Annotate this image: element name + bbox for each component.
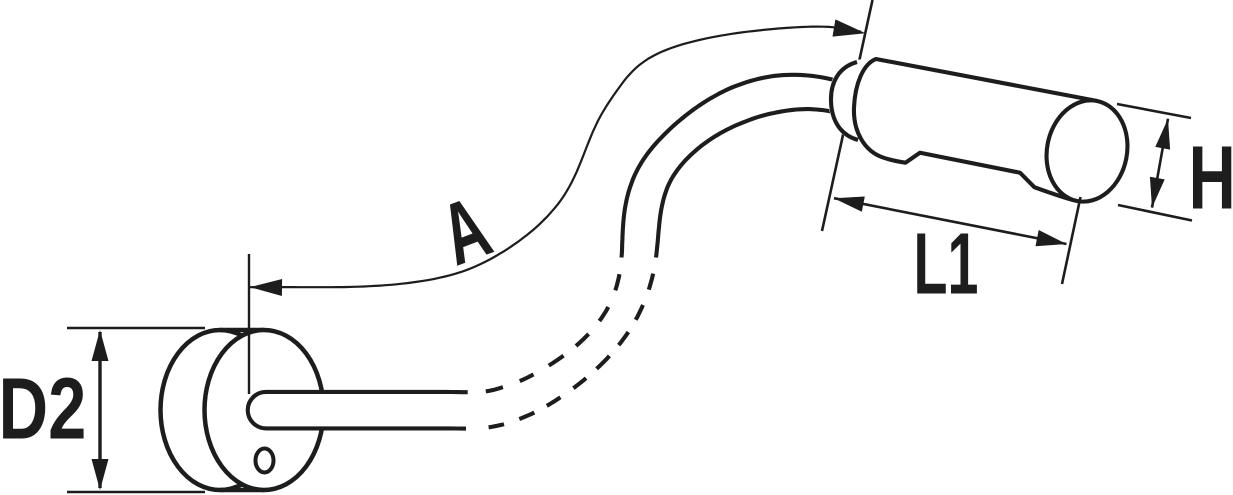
D2 dimension line xyxy=(98,332,101,488)
extension line (connector, for A and L1) xyxy=(822,0,873,231)
svg-text:L1: L1 xyxy=(914,216,979,312)
tube top wall dashed xyxy=(486,274,620,391)
D2 bottom extension line xyxy=(67,491,205,494)
svg-text:H: H xyxy=(1189,127,1233,228)
svg-text:D2: D2 xyxy=(0,360,86,458)
L1 right extension line xyxy=(1062,197,1081,284)
tube white interior xyxy=(266,75,847,429)
disc top tangent xyxy=(220,328,264,333)
dimension arc A xyxy=(250,27,861,288)
H top extension line xyxy=(1117,104,1191,118)
tube left end cap xyxy=(248,392,266,429)
tube bottom wall solid (to connector) xyxy=(656,109,842,257)
tube top wall solid (from disc) xyxy=(266,390,468,394)
arrowhead L1 left xyxy=(834,197,865,212)
L1 dimension line xyxy=(834,198,1067,244)
arrowhead D2 down xyxy=(92,459,109,490)
collar white mask xyxy=(828,59,874,142)
arrowhead H down xyxy=(1150,177,1165,208)
D2 top extension line xyxy=(67,327,205,330)
arrowhead A right xyxy=(833,19,866,36)
connector end ellipse xyxy=(1038,93,1136,209)
arrowhead L1 right xyxy=(1036,230,1067,246)
H dimension line xyxy=(1152,119,1168,208)
tube bottom wall solid (from disc) xyxy=(266,426,466,430)
disc bottom tangent xyxy=(220,488,264,493)
disc front ellipse xyxy=(205,330,324,490)
tube top wall solid (to connector) xyxy=(622,75,849,258)
arrowhead A left xyxy=(250,279,282,296)
vertical extension line at disc xyxy=(248,254,250,394)
disc back ellipse xyxy=(161,330,280,490)
arrowhead D2 up xyxy=(92,330,109,361)
connector body xyxy=(854,59,1097,200)
disc hole o xyxy=(256,449,274,473)
tube bottom wall dashed xyxy=(489,274,653,428)
collar (small ring at connector) xyxy=(831,62,858,140)
arrowhead H up xyxy=(1155,119,1170,150)
H bottom extension line xyxy=(1118,205,1192,221)
